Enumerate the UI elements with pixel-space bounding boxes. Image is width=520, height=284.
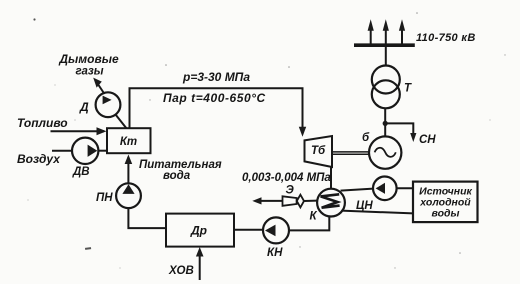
wire feed water arrow into Кт bottom — [127, 157, 129, 183]
svg-text:Др: Др — [190, 224, 207, 238]
svg-text:газы: газы — [75, 66, 103, 78]
wire ХОВ arrow into Др — [199, 250, 201, 280]
wire branch to СН (auxiliaries) — [385, 123, 413, 136]
deaerator Др — [166, 214, 234, 247]
svg-text:Кт: Кт — [120, 136, 137, 148]
svg-text:Д: Д — [79, 100, 89, 114]
wire ДВ to Кт — [98, 150, 107, 152]
transformer Т — [372, 66, 400, 94]
pump ПН (feed pump) — [116, 183, 141, 208]
pump ЦН (circulating pump) — [373, 177, 397, 201]
svg-text:воды: воды — [432, 208, 460, 220]
wire condenser to ЦН (cooling water) — [341, 189, 374, 191]
generator G — [369, 136, 401, 168]
svg-text:К: К — [310, 211, 318, 223]
svg-text:ДВ: ДВ — [72, 166, 90, 178]
svg-text:КН: КН — [267, 247, 283, 259]
label Питательная вода — [139, 159, 222, 182]
wire Д to boiler Кт — [115, 114, 126, 128]
svg-text:б: б — [362, 132, 370, 144]
wire turbine exhaust to condenser — [330, 167, 332, 189]
wire outgoing line 1 — [370, 28, 372, 45]
busbar 110-750 kV — [354, 43, 415, 47]
wire flue-gas arrow from Д to Дымовые газы — [98, 84, 105, 95]
wire ПН down to deaerator Др — [128, 208, 166, 228]
wire КН to condenser — [289, 217, 329, 231]
shaft turbine-generator — [332, 151, 369, 153]
svg-text:Т: Т — [404, 83, 412, 95]
svg-text:ПН: ПН — [96, 192, 113, 204]
svg-text:Пар t=400-650°С: Пар t=400-650°С — [163, 91, 266, 105]
boiler Кт — [107, 128, 151, 153]
wire generator to transformer — [384, 109, 386, 137]
fan ДВ (blower) — [72, 138, 98, 164]
svg-text:Топливо: Топливо — [17, 116, 68, 130]
svg-text:Воздух: Воздух — [17, 152, 61, 166]
wire Др to КН — [234, 229, 263, 231]
wire outgoing line 2 — [385, 28, 387, 45]
wire fuel arrow into Кт — [51, 130, 105, 132]
svg-text:СН: СН — [419, 134, 436, 146]
svg-text:p=3-30 МПа: p=3-30 МПа — [182, 70, 250, 84]
pump КН (condensate pump) — [263, 217, 289, 243]
svg-text:0,003-0,004 МПа: 0,003-0,004 МПа — [242, 172, 331, 184]
svg-text:Дымовые: Дымовые — [58, 52, 119, 66]
svg-text:Тб: Тб — [311, 145, 326, 157]
svg-text:вода: вода — [163, 170, 191, 182]
wire air line into ДВ — [52, 150, 72, 152]
wire ejector outlet arrow — [256, 200, 282, 202]
svg-text:ЦН: ЦН — [356, 200, 373, 212]
fan Д (smoke exhauster) — [96, 92, 121, 117]
ejector Э nozzle — [283, 196, 297, 206]
label Дымовые газы — [58, 52, 119, 78]
wire outgoing line 3 — [401, 28, 403, 45]
wire ЦН to cold water source — [397, 187, 413, 189]
wire cold water source to condenser — [341, 211, 413, 214]
wire ejector to condenser — [304, 200, 317, 202]
turbine Тб — [305, 136, 333, 167]
box Источник холодной воды — [413, 182, 478, 223]
wire steam line Кт to turbine — [130, 88, 303, 130]
svg-text:ХОВ: ХОВ — [168, 265, 194, 277]
condenser К — [317, 189, 345, 217]
svg-text:Э: Э — [286, 185, 295, 197]
svg-text:110-750 кВ: 110-750 кВ — [416, 32, 476, 44]
node junction dot — [383, 121, 388, 126]
wire transformer to busbar — [385, 46, 387, 66]
ejector Э diamond — [297, 195, 304, 208]
